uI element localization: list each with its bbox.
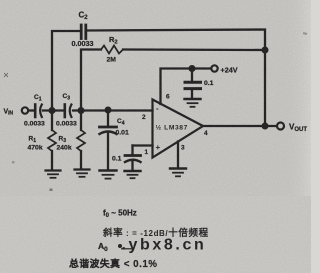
wire C2 feedback top: node1 up, across, down to output bbox=[52, 31, 81, 111]
node VOUT terminal bbox=[277, 123, 284, 130]
resistor R1 bbox=[48, 111, 56, 171]
node VIN terminal bbox=[22, 107, 33, 113]
noise speck top left bbox=[4, 73, 8, 77]
node +24V terminal bbox=[211, 65, 217, 71]
wire R2 feedback: node2 up to resistor bbox=[81, 50, 101, 111]
node B junction dot node2 bbox=[78, 107, 85, 114]
noise speck mid left bbox=[50, 189, 53, 192]
wire R2 to right rail bbox=[123, 48, 265, 51]
capacitor C4 bbox=[100, 110, 117, 170]
ground under supply capacitor bbox=[185, 99, 201, 107]
capacitor C3 bbox=[65, 105, 72, 118]
node +24V junction dot bbox=[189, 65, 196, 72]
ground under R1 bbox=[46, 171, 61, 178]
noise speck top right bbox=[303, 32, 307, 35]
value and reference labels bbox=[4, 11, 308, 163]
node R2 right rail junction dot bbox=[262, 47, 269, 54]
wire output to VOUT bbox=[203, 125, 277, 127]
ground under C4 bbox=[100, 171, 117, 179]
capacitor C2 bbox=[81, 25, 86, 39]
node A junction dot node1 bbox=[49, 107, 56, 114]
caption line 3 bullet dot bbox=[118, 244, 122, 248]
capacitor 0.1 supply decoupling bbox=[185, 69, 201, 99]
resistor R3 bbox=[77, 111, 85, 170]
node C junction dot node3 bbox=[105, 107, 112, 114]
wire op-amp pin 6 to +24V rail bbox=[161, 69, 212, 105]
wire C2 right plate to right rail bbox=[87, 30, 265, 127]
ground under pin 3 bbox=[170, 169, 186, 177]
wire input line node1-node2-node3 to op-amp bbox=[43, 109, 64, 111]
resistor R2 bbox=[101, 46, 123, 54]
capacitor 0.1 at non-inverting input bbox=[125, 146, 153, 171]
ground under R3 bbox=[75, 170, 90, 177]
op-amp U1 half LM387 triangle bbox=[153, 100, 204, 158]
watermark underline bbox=[121, 248, 134, 250]
noise speck left margin bbox=[12, 161, 15, 164]
wire op-amp pin 3 to ground bbox=[177, 142, 179, 169]
capacitor C1 bbox=[35, 105, 42, 118]
ground under 0.1 input capacitor bbox=[125, 171, 141, 178]
node output junction dot bbox=[262, 123, 269, 130]
